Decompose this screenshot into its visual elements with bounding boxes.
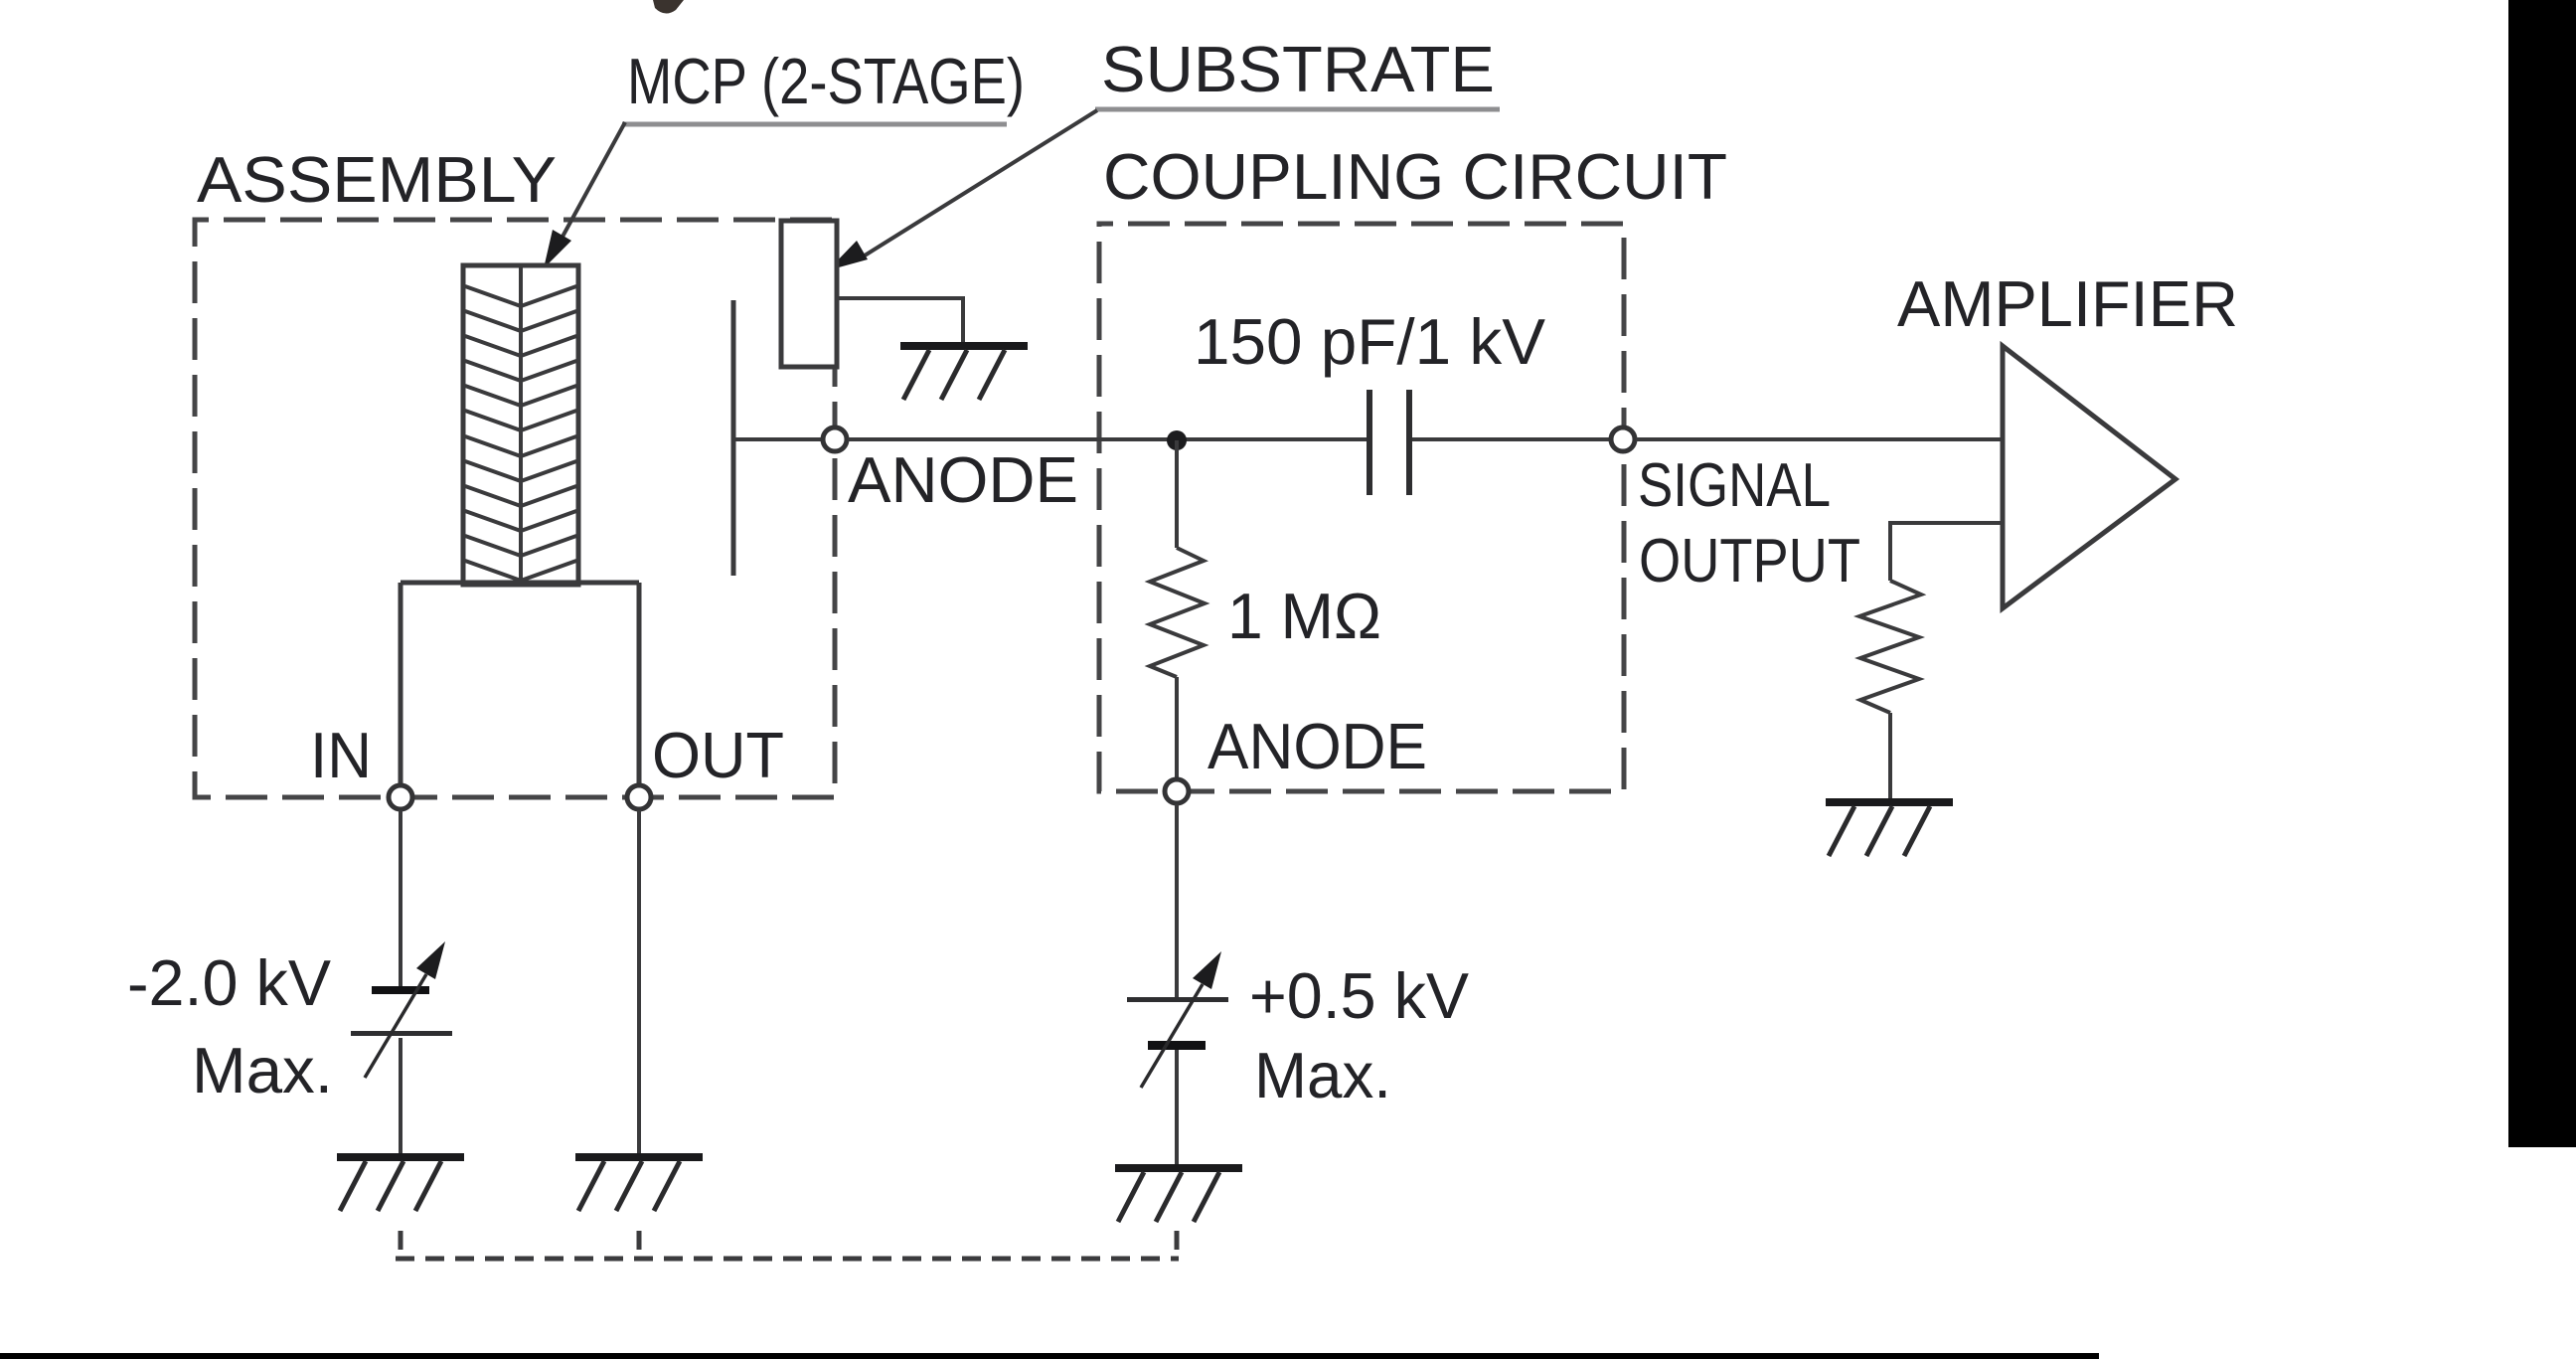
HV supply +0.5 kV battery [1127, 997, 1228, 1050]
wire +0.5 kV battery to ground [1175, 1050, 1179, 1164]
svg-text:Max.: Max. [192, 1034, 333, 1106]
SUBSTRATE leader arrow [828, 110, 1097, 270]
svg-text:ANODE: ANODE [1207, 710, 1427, 782]
wire OUT to ground [637, 810, 641, 1153]
amplifier second input wire [1890, 523, 2003, 581]
svg-text:+0.5 kV: +0.5 kV [1249, 959, 1470, 1032]
load resistor zigzag [1859, 581, 1921, 713]
HV supply -2.0 kV variable arrow [365, 941, 445, 1078]
wire IN to HV supply [399, 810, 402, 986]
HV supply -2.0 kV battery [351, 986, 452, 1036]
svg-text:150 pF/1 kV: 150 pF/1 kV [1194, 305, 1546, 378]
node junction [1167, 430, 1187, 450]
substrate ground [900, 342, 1028, 400]
resistor R 1 Mohm zigzag [1150, 548, 1205, 677]
anode electrode plate [731, 300, 736, 576]
svg-text:MCP (2-STAGE): MCP (2-STAGE) [627, 45, 1025, 117]
substrate plate [781, 221, 837, 367]
wire load resistor to ground [1888, 713, 1892, 798]
svg-text:IN: IN [310, 719, 372, 791]
wire anode plate to assembly terminal [733, 437, 824, 441]
assembly dashed box [195, 220, 835, 797]
svg-text:AMPLIFIER: AMPLIFIER [1897, 267, 2238, 340]
svg-text:SUBSTRATE: SUBSTRATE [1101, 33, 1495, 105]
wire resistor to anode terminal [1175, 677, 1179, 779]
SIGNAL OUTPUT terminal circle [1611, 427, 1635, 451]
resistor 1 Mohm wire from node [1175, 440, 1179, 548]
svg-text:COUPLING CIRCUIT: COUPLING CIRCUIT [1103, 140, 1727, 213]
wire output terminal to amplifier [1636, 437, 2003, 441]
wire terminal to capacitor [848, 437, 1368, 441]
capacitor C 150 pF [1367, 390, 1412, 495]
svg-text:OUT: OUT [652, 719, 784, 791]
wire capacitor to output terminal [1412, 437, 1610, 441]
ANODE terminal circle [823, 427, 847, 451]
ground anode branch [1115, 1164, 1242, 1222]
wire -2.0 kV battery to ground [399, 1038, 402, 1155]
svg-text:ANODE: ANODE [848, 443, 1078, 516]
coupling circuit dashed box [1099, 224, 1624, 791]
SUBSTRATE label underline [1095, 107, 1500, 112]
HV supply +0.5 kV variable arrow [1141, 951, 1221, 1088]
OUT terminal circle [627, 785, 651, 809]
amplifier ground [1826, 798, 1953, 856]
wire anode terminal to HV supply [1175, 804, 1179, 997]
MCP stack (2-stage) [463, 265, 578, 585]
MCP leader arrow [544, 122, 625, 268]
svg-text:1 MΩ: 1 MΩ [1227, 580, 1381, 652]
IN terminal circle [389, 785, 412, 809]
svg-text:OUTPUT: OUTPUT [1639, 527, 1860, 595]
common dashed return wire [396, 1231, 1179, 1259]
MCP label underline [622, 122, 1007, 127]
ground OUT branch [575, 1153, 703, 1211]
svg-text:Max.: Max. [1254, 1039, 1391, 1111]
ground IN branch [337, 1153, 464, 1211]
amplifier triangle [2003, 346, 2175, 608]
svg-text:-2.0 kV: -2.0 kV [127, 946, 332, 1019]
svg-text:SIGNAL: SIGNAL [1638, 451, 1831, 520]
MCP base block [401, 583, 639, 785]
MCP chevron hatching [465, 286, 576, 581]
svg-text:ASSEMBLY: ASSEMBLY [197, 143, 557, 216]
ANODE lower terminal circle [1165, 779, 1189, 803]
substrate ground wire [837, 298, 963, 342]
